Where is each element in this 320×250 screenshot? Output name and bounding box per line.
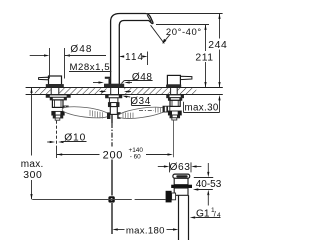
svg-text:211: 211 (195, 53, 213, 64)
svg-text:114: 114 (125, 52, 144, 63)
left valve body (49, 76, 62, 85)
deck top line (26, 87, 223, 89)
pop-up rod middle (111, 160, 113, 196)
drain seal band (171, 185, 192, 188)
right valve escutcheon (166, 85, 181, 88)
svg-text:Ø10: Ø10 (64, 133, 86, 144)
dim max.180 (112, 228, 117, 230)
left hose dash line (79, 109, 95, 111)
right valve band2 (170, 115, 180, 118)
right hose braid ticks (123, 107, 161, 118)
spout escutcheon (104, 84, 124, 87)
svg-text:300: 300 (23, 170, 42, 181)
deck hatching (35, 88, 51, 94)
spout deck hole (107, 88, 124, 94)
spout tee (110, 107, 117, 115)
drain body lower (174, 188, 188, 195)
dim line 211 (205, 25, 207, 52)
left valve nipple (55, 118, 60, 120)
svg-text:max.: max. (21, 159, 44, 170)
right hose dash line (139, 110, 154, 112)
Ø10 arrows (47, 141, 51, 143)
left valve dim ext lines (49, 48, 51, 79)
svg-text:max.30: max.30 (184, 102, 218, 113)
left hose hex at tee (107, 112, 110, 119)
svg-text:244: 244 (208, 40, 227, 51)
ball joint (108, 196, 114, 202)
svg-text:4: 4 (217, 212, 221, 219)
horizontal rod (32, 199, 132, 201)
right valve washer (167, 95, 184, 98)
right valve deck hole (170, 88, 177, 94)
svg-text:40-53: 40-53 (196, 179, 222, 190)
right hose hex at tee (117, 112, 121, 119)
angle leader arrow (164, 35, 170, 42)
left valve side port hex (63, 106, 68, 112)
left valve dim outside arrow (30, 55, 46, 57)
left hose to spout (62, 105, 110, 120)
left valve deck hole (51, 88, 60, 94)
right valve locknut (168, 111, 181, 115)
hole Ø34 arrows (100, 91, 103, 93)
pop-up rod top (111, 114, 113, 123)
deck bottom line (26, 94, 223, 96)
left valve top nut (50, 97, 66, 100)
right valve lower body (170, 100, 180, 106)
spout shank nut (108, 103, 119, 107)
drain cap (173, 174, 190, 178)
dim 244 ext line (top) (146, 13, 222, 15)
right valve center line (173, 120, 175, 157)
right valve lever (180, 76, 192, 79)
left valve lever (39, 77, 49, 80)
pop-up rod lower (111, 203, 113, 234)
right valve port hex (163, 106, 170, 112)
dim line 244 (219, 14, 221, 39)
svg-text:Ø48: Ø48 (70, 44, 92, 55)
spout pop-up knob (105, 77, 111, 79)
drain body upper (174, 178, 188, 184)
svg-text:- 60: - 60 (130, 154, 141, 161)
spout washer (106, 95, 122, 98)
spout escutcheon arrows (93, 82, 100, 84)
spout shank (109, 98, 118, 103)
right hose to right valve (118, 105, 167, 121)
svg-text:200: 200 (103, 149, 123, 161)
left valve band2 (53, 115, 63, 118)
svg-text:Ø63: Ø63 (169, 162, 190, 173)
svg-text:Ø48: Ø48 (132, 72, 153, 83)
dim 211 ext line (156, 24, 209, 26)
dim 40-53 bottom line (196, 189, 213, 191)
dim 40-53 top line (194, 177, 213, 179)
left valve lower body (52, 100, 63, 108)
svg-text:20°-40°: 20°-40° (166, 27, 202, 38)
left valve hose nipple (68, 107, 78, 111)
right valve body (167, 75, 180, 85)
dim 200 (57, 154, 100, 156)
left valve washer (46, 95, 70, 97)
left valve escutcheon (46, 84, 64, 87)
Ø10 dashed line (56, 121, 58, 149)
right valve nipple (172, 118, 177, 120)
dim Ø63 (158, 166, 166, 168)
svg-text:max.180: max.180 (126, 226, 165, 237)
spout outlet face (147, 15, 151, 22)
max 300 dim line (31, 88, 33, 156)
spout body outline (111, 14, 153, 85)
angle leg from spout tip (151, 25, 165, 43)
drain left knob (166, 191, 172, 203)
left valve dim label line with arrow (65, 54, 70, 56)
drain tailpipe (178, 195, 180, 240)
left valve locknut (52, 111, 64, 115)
dim 114 arrows (119, 55, 124, 57)
right valve top nut (168, 98, 181, 101)
